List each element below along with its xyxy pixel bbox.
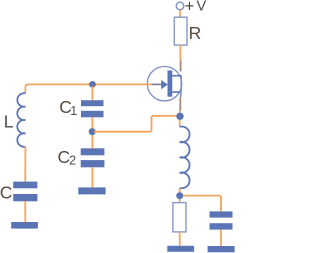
svg-text:2: 2	[69, 154, 76, 168]
svg-text:R: R	[189, 23, 202, 43]
svg-text:L: L	[4, 112, 14, 132]
svg-text:C: C	[0, 182, 12, 202]
svg-text:+: +	[185, 0, 195, 15]
svg-text:1: 1	[70, 104, 77, 118]
svg-text:V: V	[197, 0, 207, 15]
